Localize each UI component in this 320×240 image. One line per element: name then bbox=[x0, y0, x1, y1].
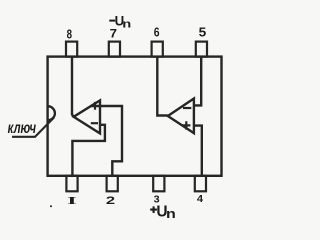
plus sign A1 input bbox=[94, 102, 96, 110]
wire A2 non-inverting input (+) to pin 4 bbox=[194, 126, 202, 176]
svg-text:2: 2 bbox=[106, 195, 115, 207]
op-amp A2 (right comparator) triangle bbox=[168, 99, 194, 134]
pin 2 (bottom box) bbox=[107, 176, 118, 192]
pin 6 (top box) bbox=[152, 42, 163, 57]
IC body DA1 package outline bbox=[48, 57, 222, 176]
plus sign A2 input bbox=[182, 121, 190, 129]
net label -Un (negative supply on pin 7) bbox=[109, 20, 115, 22]
pin 3 (bottom box) bbox=[153, 176, 164, 192]
pin 1 (bottom box) bbox=[66, 176, 77, 192]
wire A1 non-inverting input (+) to pin 2 bbox=[91, 106, 123, 176]
key notch circle on left edge bbox=[48, 106, 55, 120]
pin 7 (top box) bbox=[109, 42, 120, 57]
key pointer wire bbox=[12, 118, 54, 137]
pin 5 (top box) bbox=[196, 42, 207, 57]
svg-text:4: 4 bbox=[197, 193, 203, 205]
svg-text:8: 8 bbox=[67, 27, 72, 41]
net label +Un (positive supply on pin 3) bbox=[150, 206, 157, 213]
wire pin6 to op-amp A2 output bbox=[157, 57, 168, 116]
svg-text:n: n bbox=[166, 206, 176, 221]
svg-text:6: 6 bbox=[154, 25, 160, 39]
wire pin8 to op-amp A1 output bbox=[72, 57, 74, 117]
svg-text:n: n bbox=[122, 19, 131, 31]
pin 4 (bottom box) bbox=[195, 176, 206, 192]
wire A2 inverting input (-) to pin 5 bbox=[194, 57, 201, 106]
pin 8 (top box) bbox=[66, 42, 77, 57]
minus sign A2 input bbox=[183, 107, 191, 109]
svg-text:7: 7 bbox=[110, 27, 118, 41]
scan speck bbox=[50, 205, 52, 207]
svg-text:I: I bbox=[67, 196, 77, 207]
wire A1 inverting input (-) to pin 1 bbox=[72, 125, 105, 176]
svg-text:5: 5 bbox=[199, 26, 207, 40]
minus sign A1 input bbox=[91, 122, 98, 124]
op-amp A1 (left comparator) triangle bbox=[74, 100, 100, 133]
svg-text:ключ: ключ bbox=[8, 120, 36, 137]
